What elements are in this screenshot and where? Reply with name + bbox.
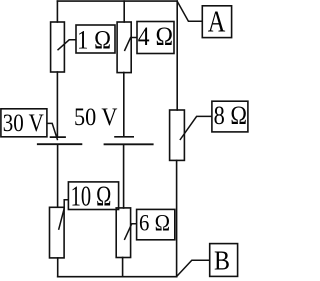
resistor R4 body (10 ohm) bbox=[50, 207, 65, 258]
leader line to 8 ohm label bbox=[180, 116, 212, 140]
svg-text:B: B bbox=[214, 245, 230, 276]
battery E2 50V long plate bbox=[104, 143, 154, 145]
battery E2 50V short plate bbox=[114, 136, 134, 138]
wire left branch bottom bbox=[57, 258, 59, 277]
leader line to 30 V label bbox=[47, 123, 58, 140]
wire left branch below battery bbox=[57, 145, 59, 207]
resistor R3 body (8 ohm) bbox=[170, 110, 185, 160]
label box 30 V bbox=[1, 109, 47, 137]
svg-text:1 Ω: 1 Ω bbox=[77, 25, 111, 55]
svg-text:6 Ω: 6 Ω bbox=[139, 211, 170, 237]
leader line to 1 ohm label bbox=[58, 40, 77, 50]
wire bottom horizontal bbox=[58, 276, 177, 278]
wire middle branch bottom bbox=[122, 258, 124, 277]
wire middle branch between R4 and battery bbox=[123, 73, 125, 137]
svg-text:A: A bbox=[208, 5, 226, 39]
wire middle branch top bbox=[123, 1, 125, 22]
leader line to 4 ohm label bbox=[124, 38, 137, 52]
label box 6 ohm bbox=[137, 209, 175, 239]
leader line to 6 ohm label bbox=[124, 224, 136, 240]
leader line to B box bbox=[177, 260, 210, 276]
leader line to A box bbox=[177, 1, 202, 21]
wire middle branch below battery bbox=[123, 145, 125, 209]
battery E1 30V long plate bbox=[37, 143, 82, 145]
label box A (ammeter) bbox=[202, 6, 231, 38]
resistor R5 body (6 ohm) bbox=[116, 208, 130, 258]
resistor R2 body (4 ohm) bbox=[117, 22, 131, 73]
label box 10 ohm bbox=[68, 182, 118, 210]
wire right branch lower bbox=[176, 161, 178, 277]
svg-text:50 V: 50 V bbox=[74, 102, 118, 131]
wire left branch top bbox=[56, 1, 58, 22]
svg-text:4 Ω: 4 Ω bbox=[138, 21, 173, 51]
battery E1 30V short plate bbox=[50, 136, 66, 138]
svg-text:10 Ω: 10 Ω bbox=[71, 181, 112, 212]
wire top horizontal bbox=[57, 0, 177, 2]
resistor R1 body (1 ohm) bbox=[51, 22, 65, 72]
svg-text:8 Ω: 8 Ω bbox=[214, 100, 247, 130]
label box 8 ohm bbox=[212, 101, 248, 132]
label box 1 ohm bbox=[76, 25, 115, 53]
label box B bbox=[210, 244, 238, 277]
svg-text:30 V: 30 V bbox=[3, 108, 44, 137]
wire left branch between R1 and battery bbox=[56, 72, 58, 137]
wire right branch upper bbox=[176, 1, 178, 110]
leader line to 10 ohm label bbox=[59, 200, 69, 230]
label box 4 ohm bbox=[137, 22, 174, 54]
